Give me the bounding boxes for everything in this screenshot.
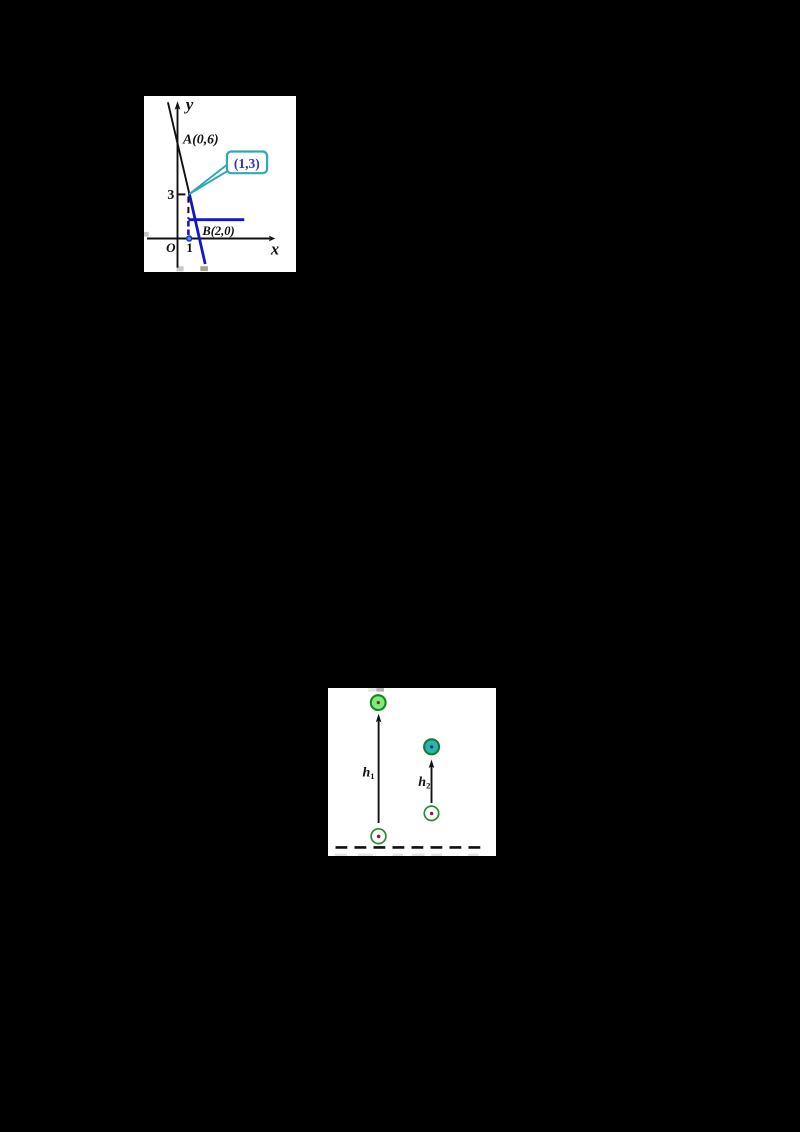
blue dashed vertical below (187, 221, 190, 236)
gray artifact top light (368, 688, 376, 692)
x-axis (147, 238, 270, 240)
callout tail to (1,3) (190, 165, 229, 194)
green ball center dot (377, 701, 380, 704)
tick at y=3 (178, 193, 186, 195)
teal ball top of h2 (424, 739, 439, 754)
faint gray smudges below ground (335, 854, 479, 856)
svg-text:O: O (166, 240, 176, 255)
svg-text:3: 3 (167, 187, 174, 202)
dashed vertical line x=1 upper (black) (187, 197, 189, 220)
svg-text:y: y (184, 96, 194, 114)
arrow h1 shaft (378, 720, 380, 824)
y-axis arrowhead (175, 101, 181, 109)
arrow h2 head (429, 760, 435, 769)
open circle bottom of h2 (424, 806, 438, 820)
dashed ground line (336, 846, 481, 849)
point (1,0) open blue circle (187, 236, 192, 241)
open circle 2 center dot (430, 812, 433, 815)
arrow h1 head (376, 714, 382, 723)
svg-text:(1,3): (1,3) (234, 156, 260, 171)
teal ball center dot (430, 745, 433, 748)
svg-text:h2: h2 (418, 775, 430, 791)
x-axis arrowhead (269, 236, 276, 242)
svg-text:h1: h1 (363, 766, 375, 782)
green ball top of h1 (371, 695, 386, 710)
callout box (227, 152, 267, 174)
panel 1: coordinate-plane figure (144, 96, 296, 272)
line through A(0,6) and B(2,0), black upper part (168, 102, 190, 195)
blue horizontal segment y=1.3 (188, 218, 244, 221)
open circle 1 center dot (377, 835, 381, 839)
svg-text:x: x (270, 240, 279, 259)
gray artifact left edge (144, 232, 149, 237)
gray artifact bottom right (200, 266, 208, 271)
gray artifact bottom left (177, 266, 184, 271)
panel 2: balls and heights figure (328, 688, 496, 856)
svg-text:1: 1 (186, 240, 193, 255)
svg-text:B(2,0): B(2,0) (201, 224, 234, 238)
blue line segment from (1,3) downward (189, 193, 205, 264)
gray artifact top dark (376, 688, 384, 692)
y-axis (177, 107, 179, 268)
arrow h2 shaft (431, 765, 433, 803)
open circle bottom of h1 (371, 829, 386, 844)
svg-text:A(0,6): A(0,6) (182, 131, 219, 147)
